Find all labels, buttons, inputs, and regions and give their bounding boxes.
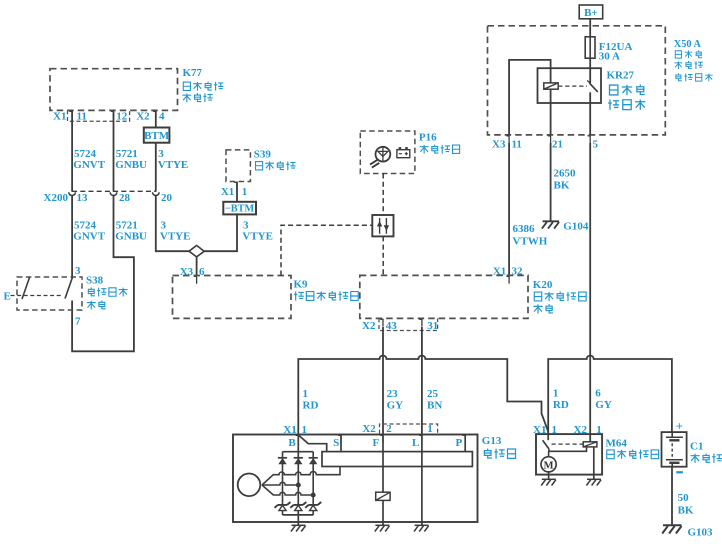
serial data dashed wire K9 to data box — [281, 225, 372, 275]
rectifier bottom zener diode 1 — [275, 502, 291, 511]
serial data link box (arrows) — [372, 215, 393, 236]
svg-text:1: 1 — [242, 186, 248, 198]
svg-text:23: 23 — [387, 388, 399, 400]
node B+ battery positive terminal — [579, 5, 603, 19]
rectifier bottom zener diode 2 — [290, 502, 306, 511]
svg-text:32: 32 — [512, 266, 524, 278]
svg-text:13: 13 — [77, 192, 89, 204]
junction dot phase 2 / column 2 — [296, 483, 301, 488]
wire label 6 GY — [595, 388, 612, 411]
svg-text:G103: G103 — [688, 527, 714, 539]
wire 6386 VTWH : X3 pin 11 to K20 X1 pin 32 — [508, 143, 510, 275]
wire 6 GY : X3 pin 5 down to starter solenoid M64 X2 pin 1 — [589, 143, 591, 434]
wire B+ down through fuse to relay switch — [589, 19, 591, 83]
stator phase line 3 (to column 3) — [262, 485, 313, 495]
svg-text:P: P — [455, 437, 462, 449]
svg-text:X1: X1 — [53, 111, 66, 123]
svg-text:X2: X2 — [574, 424, 588, 436]
svg-text:25: 25 — [427, 388, 439, 400]
svg-text:BN: BN — [427, 400, 442, 412]
svg-text:G13: G13 — [482, 435, 502, 447]
module K9 body control module box — [173, 276, 292, 319]
svg-text:VTYE: VTYE — [242, 231, 273, 243]
module P16 instrument cluster box — [360, 131, 415, 174]
battery C1 box — [662, 432, 687, 467]
fuse box X50A label — [674, 39, 713, 81]
field coil (rotor winding) on F wire — [376, 492, 390, 500]
svg-text:P16: P16 — [419, 131, 437, 143]
wire K20 X2-43 to G13 F terminal (23 GY) — [382, 327, 384, 435]
svg-text:X50 A: X50 A — [674, 39, 702, 50]
svg-text:2: 2 — [386, 423, 392, 435]
battery C1 minus label — [676, 471, 683, 473]
svg-text:C1: C1 — [690, 440, 703, 452]
M64 switch blade — [543, 434, 549, 449]
P16 charge indicator lamp icon — [370, 147, 390, 168]
junction dot phase 3 / column 3 — [311, 493, 316, 498]
svg-text:M64: M64 — [606, 437, 628, 449]
switch S38 labels — [86, 274, 128, 309]
wire label 6386 VTWH — [513, 223, 548, 248]
svg-text:VTWH: VTWH — [513, 236, 548, 248]
svg-text:GNBU: GNBU — [115, 231, 147, 243]
svg-text:7: 7 — [75, 316, 81, 328]
connector X200 terminal 28 — [110, 192, 117, 195]
rectifier bottom zener diode 3 — [305, 502, 321, 511]
ground below M64 motor — [541, 479, 556, 485]
wire 50 BK battery negative to ground G103 — [671, 467, 673, 525]
svg-text:12: 12 — [116, 111, 128, 123]
generator pin ticks B S F L P — [296, 435, 466, 442]
svg-text:M: M — [544, 460, 554, 471]
P16 battery icon — [397, 148, 410, 158]
svg-text:1: 1 — [552, 424, 558, 436]
svg-text:5721: 5721 — [116, 219, 138, 231]
svg-text:2650: 2650 — [554, 168, 577, 180]
svg-text:F: F — [372, 437, 379, 449]
svg-text:5724: 5724 — [74, 148, 97, 160]
wire X200-28 to S38 pin 7 (U route) — [72, 195, 134, 351]
generator G13 labels — [482, 435, 516, 459]
wire 2650 BK : pin 21 to ground G104 — [550, 143, 552, 221]
rectifier top diode 3 — [309, 458, 318, 464]
switch S39 labels — [254, 149, 296, 171]
module K9 labels — [294, 278, 359, 300]
wire P terminal to regulator — [464, 435, 466, 452]
stator winding circle — [238, 474, 261, 497]
relay KR27 coil — [544, 83, 558, 89]
relay KR27 labels — [607, 70, 646, 110]
rectifier top diode 2 — [294, 458, 303, 464]
stator phase line 2 (to column 2) — [262, 482, 298, 485]
K77 connector X1 dashed bracket — [68, 110, 130, 121]
module P16 labels — [419, 131, 460, 153]
svg-text:1: 1 — [596, 424, 602, 436]
wire labels 5724 GNVT / 5721 GNBU / 3 VTYE (upper) — [73, 148, 188, 171]
module K77 labels — [182, 67, 223, 102]
M64 wire switch junction to coil — [549, 447, 587, 451]
svg-text:28: 28 — [119, 192, 131, 204]
wire -BTM to diamond junction (3 VTYE) — [204, 214, 237, 251]
S38 switch blade 2 — [65, 277, 73, 298]
svg-text:5: 5 — [593, 139, 599, 151]
svg-text:1: 1 — [553, 388, 559, 400]
S38 linkage dashed line from E — [11, 295, 64, 297]
svg-text:X2: X2 — [362, 423, 376, 435]
svg-text:21: 21 — [552, 139, 563, 151]
svg-text:L: L — [412, 437, 419, 449]
wire X200-13 to S38 pin 3 — [71, 195, 73, 277]
svg-text:11: 11 — [512, 139, 522, 151]
wire BTM to X200-20 — [155, 143, 157, 192]
connector X200 terminal 13 — [69, 192, 76, 195]
relay KR27 box — [538, 68, 602, 103]
rectifier column B (center, to ground) — [297, 435, 299, 523]
wire L terminal through regulator to ground — [421, 435, 423, 523]
svg-text:X1: X1 — [533, 424, 546, 436]
svg-text:B: B — [288, 437, 296, 449]
connector X200 row (dashed link) — [72, 190, 156, 192]
M64 motor symbol — [541, 451, 556, 472]
rectifier bottom bus — [283, 514, 314, 516]
generator G13 box — [233, 435, 478, 523]
connector X200 terminal 20 — [153, 192, 160, 195]
svg-text:RD: RD — [553, 399, 569, 411]
ground G103 — [662, 525, 713, 538]
wire generator output 1 RD : G13 X1-1 to M64 X1-1 (hops over 23 GY and 25 BN) — [298, 356, 548, 435]
svg-text:BK: BK — [554, 180, 570, 192]
K20 pin X1-32 — [493, 266, 523, 284]
switch S39 ignition switch box — [226, 150, 250, 182]
fuse box X50A outline (engine compartment fuse block) — [488, 26, 666, 135]
wire relay coil to pin 21 — [550, 89, 552, 135]
svg-text:3: 3 — [161, 219, 167, 231]
wire label 2650 BK — [554, 168, 577, 192]
wire S terminal to regulator — [340, 435, 342, 452]
M64 pins X1-1 X2-1 labels — [533, 424, 602, 436]
svg-text:K9: K9 — [294, 278, 309, 290]
svg-text:+: + — [676, 419, 683, 433]
M64 solenoid coil — [583, 434, 597, 447]
module K20 engine control module box — [360, 275, 528, 318]
generator pin X1-1 labels — [283, 424, 307, 436]
svg-text:20: 20 — [161, 192, 173, 204]
connector X3 row pins 11 21 5 — [492, 136, 598, 151]
ground G104 — [542, 220, 589, 232]
svg-text:30 A: 30 A — [599, 51, 620, 63]
rectifier top diode 1 — [278, 458, 287, 464]
switch S38 ignition mode switch box — [17, 277, 82, 310]
svg-text:X1: X1 — [221, 186, 234, 198]
M64 solenoid linkage dashed — [552, 443, 584, 445]
generator terminal labels B S F L P — [288, 437, 462, 449]
ground below generator L wire — [421, 522, 423, 525]
svg-text:GNVT: GNVT — [73, 159, 105, 171]
wire K77 X1-12 to X200-28 (5721 GNBU) — [113, 110, 115, 191]
svg-text:43: 43 — [386, 320, 398, 332]
svg-text:1: 1 — [303, 388, 309, 400]
svg-text:X3: X3 — [492, 139, 506, 151]
svg-text:31: 31 — [427, 320, 438, 332]
svg-text:1: 1 — [427, 423, 433, 435]
module K20 labels — [533, 279, 586, 314]
svg-text:−BTM: −BTM — [225, 204, 255, 215]
svg-text:X2: X2 — [136, 111, 150, 123]
connector X200 labels — [44, 192, 173, 204]
svg-text:6386: 6386 — [513, 223, 536, 235]
wire S39 X1-1 to -BTM — [221, 182, 247, 202]
starter motor M64 box — [536, 434, 602, 475]
starter M64 labels — [606, 437, 659, 459]
node -BTM — [223, 202, 256, 215]
module K77 remote door lock receiver box — [50, 69, 178, 111]
svg-text:BK: BK — [678, 505, 694, 517]
svg-text:S39: S39 — [254, 149, 272, 161]
wire B terminal tap to regulator — [298, 435, 326, 452]
svg-text:GY: GY — [595, 399, 612, 411]
generator pins X2-2 X2-1 labels — [362, 423, 432, 435]
fuse F12UA 30A — [585, 37, 632, 63]
svg-text:5724: 5724 — [74, 219, 97, 231]
svg-text:4: 4 — [159, 111, 165, 123]
node BTM — [144, 128, 170, 143]
voltage regulator bar — [322, 452, 472, 467]
wire relay switch to pin 5 — [589, 92, 591, 135]
wire labels 23 GY / 25 BN — [387, 388, 443, 411]
svg-text:VTYE: VTYE — [158, 159, 189, 171]
svg-text:G104: G104 — [563, 220, 589, 232]
svg-text:KR27: KR27 — [607, 70, 635, 82]
svg-text:X1: X1 — [493, 266, 506, 278]
wire K77 X1-11 to X200-13 (5724 GNVT) — [71, 110, 73, 191]
svg-text:3: 3 — [243, 219, 249, 231]
svg-text:5721: 5721 — [116, 148, 138, 160]
svg-text:E: E — [4, 291, 11, 303]
K9 pin X3-6 labels — [180, 266, 205, 284]
wire diamond to K9 X3-6 — [196, 257, 198, 276]
battery C1 labels — [690, 440, 722, 463]
svg-text:X200: X200 — [44, 192, 69, 204]
M64 motor wire to ground — [548, 472, 550, 479]
battery C1 plates — [666, 432, 683, 467]
wire label 1 RD (starter) — [553, 388, 569, 411]
svg-text:RD: RD — [303, 400, 319, 412]
wire label 1 RD (generator) — [303, 388, 319, 411]
K20 connector X2 dashed bracket — [379, 318, 438, 330]
svg-text:X2: X2 — [362, 320, 376, 332]
svg-text:3: 3 — [158, 148, 164, 160]
wire labels lower 5724 GNVT / 5721 GNBU / 3 VTYE — [73, 219, 190, 242]
K77 pins X1-11 X1-12 X2-4 — [53, 111, 165, 123]
K20 pins X2-43 X2-31 — [362, 319, 438, 332]
svg-text:6: 6 — [595, 388, 601, 400]
stator phase line 1 (to regulator, hops 3 columns) — [262, 467, 340, 486]
serial data dashed wire P16 to data box — [382, 174, 384, 216]
svg-text:GNVT: GNVT — [73, 231, 105, 243]
ground below generator F wire — [382, 522, 384, 525]
relay KR27 switch blade — [587, 81, 598, 92]
ground below M64 solenoid — [586, 479, 601, 485]
svg-text:S: S — [333, 437, 339, 449]
svg-text:GNBU: GNBU — [115, 159, 147, 171]
svg-text:11: 11 — [77, 111, 87, 123]
wire F terminal through regulator to field coil — [382, 435, 384, 523]
rectifier top bus — [283, 451, 314, 453]
ground below generator column B — [297, 522, 299, 525]
S38 switch blade 1 — [22, 278, 30, 300]
relay KR27 coil wire from X3 pin 11 — [509, 60, 550, 135]
serial data dashed wire data box to K20 — [382, 236, 384, 275]
wire K20 X2-31 to G13 L terminal (25 BN) — [421, 327, 423, 435]
generator connector X2 dashed bracket — [380, 424, 438, 434]
svg-text:3: 3 — [75, 265, 81, 277]
svg-text:BTM: BTM — [144, 130, 170, 142]
diamond junction node — [189, 246, 204, 257]
svg-text:B+: B+ — [584, 7, 598, 19]
wire K77 X2-4 to BTM (3 VTYE) — [155, 110, 157, 127]
rectifier column 3 — [312, 452, 314, 515]
svg-text:K20: K20 — [533, 279, 553, 291]
M64 solenoid wire to ground — [593, 447, 595, 479]
wire battery positive run: M64 X1-1 to C1 + (hop over 6 GY) — [548, 356, 672, 435]
svg-text:K77: K77 — [183, 67, 203, 79]
rectifier column 1 — [282, 452, 284, 515]
wire label 3 VTYE (S39 branch) — [242, 219, 273, 242]
svg-text:50: 50 — [678, 492, 690, 504]
relay KR27 linkage (dashed) — [558, 85, 587, 87]
svg-text:GY: GY — [387, 400, 404, 412]
wire X200-20 to diamond junction — [156, 195, 189, 251]
svg-text:VTYE: VTYE — [160, 231, 191, 243]
wire label 50 BK — [678, 492, 694, 517]
svg-text:S38: S38 — [86, 274, 104, 286]
